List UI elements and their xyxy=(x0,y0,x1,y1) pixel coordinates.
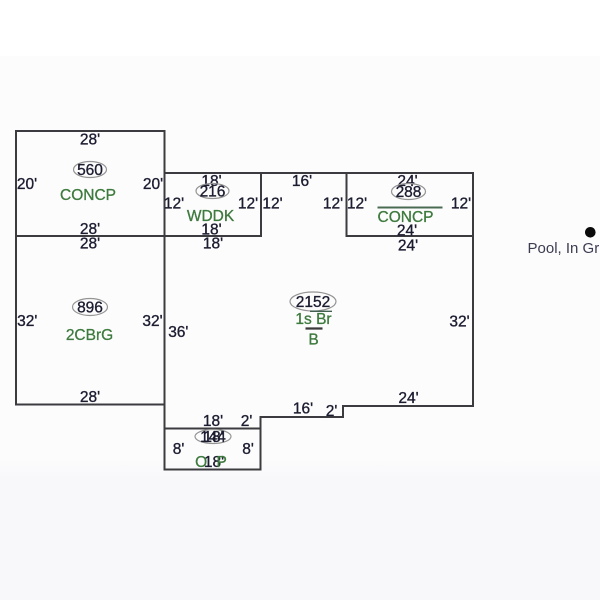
svg-text:20': 20' xyxy=(17,176,37,193)
wall WDDK east xyxy=(260,173,262,236)
svg-text:16': 16' xyxy=(292,173,312,190)
svg-text:144: 144 xyxy=(200,429,226,446)
svg-text:28': 28' xyxy=(80,236,100,253)
fraction bar xyxy=(306,327,323,329)
svg-text:8': 8' xyxy=(242,441,254,458)
main house 2152 labels xyxy=(168,173,469,430)
wall CONCP-right west xyxy=(346,173,348,236)
wall main bottom-left / OP top xyxy=(165,428,261,430)
svg-text:32': 32' xyxy=(142,313,162,330)
svg-text:28': 28' xyxy=(80,389,100,406)
room 2CBrG labels xyxy=(17,236,163,407)
svg-text:2152: 2152 xyxy=(296,294,330,311)
svg-text:1s Br: 1s Br xyxy=(295,311,331,328)
svg-text:36': 36' xyxy=(168,324,188,341)
wall step 2ft right xyxy=(342,406,344,417)
svg-text:2': 2' xyxy=(241,413,253,430)
porch OP labels xyxy=(173,429,254,471)
room CONCP-right labels xyxy=(347,173,471,240)
svg-text:12': 12' xyxy=(451,196,471,213)
svg-text:18': 18' xyxy=(203,236,223,253)
porch rail line under 288 xyxy=(378,207,443,209)
wall main bottom-middle xyxy=(261,416,343,418)
svg-text:32': 32' xyxy=(17,313,37,330)
wall right of left boxes / main house west wall xyxy=(164,131,166,470)
svg-text:32': 32' xyxy=(449,314,469,331)
room WDDK labels xyxy=(164,173,258,239)
wall CONCP-left bottom / WDDK bottom xyxy=(16,235,261,237)
svg-text:288: 288 xyxy=(396,184,422,201)
svg-text:20': 20' xyxy=(143,176,163,193)
overline over Br xyxy=(310,310,332,312)
wall step / OP east xyxy=(260,417,262,470)
svg-text:Pool, In Grnd: Pool, In Grnd xyxy=(528,240,600,257)
svg-text:2': 2' xyxy=(326,403,338,420)
svg-text:P: P xyxy=(217,454,227,471)
wall top run WDDK / main / CONCP-right xyxy=(165,172,474,174)
wall CONCP-right bottom xyxy=(347,235,474,237)
svg-text:28': 28' xyxy=(80,132,100,149)
svg-text:560: 560 xyxy=(77,162,103,179)
svg-text:B: B xyxy=(308,332,318,349)
svg-text:16': 16' xyxy=(293,401,313,418)
svg-text:12': 12' xyxy=(238,196,258,213)
svg-text:8': 8' xyxy=(173,441,185,458)
wall left of CONCP-left and 2CBrG boxes xyxy=(15,131,17,405)
wall OP bottom xyxy=(165,469,261,471)
svg-text:12': 12' xyxy=(262,196,282,213)
svg-text:12': 12' xyxy=(347,196,367,213)
room CONCP-left labels xyxy=(17,132,163,239)
pool marker xyxy=(585,227,596,238)
svg-text:O: O xyxy=(195,454,207,471)
svg-text:216: 216 xyxy=(200,184,226,201)
svg-text:24': 24' xyxy=(398,238,418,255)
top white band xyxy=(0,0,600,56)
svg-text:12': 12' xyxy=(164,196,184,213)
svg-text:2CBrG: 2CBrG xyxy=(66,327,113,344)
svg-text:18': 18' xyxy=(203,413,223,430)
svg-text:896: 896 xyxy=(77,300,103,317)
svg-text:12': 12' xyxy=(323,196,343,213)
wall main bottom-right xyxy=(343,405,473,407)
wall 2CBrG bottom xyxy=(16,404,165,406)
svg-text:CONCP: CONCP xyxy=(60,187,116,204)
wall top of CONCP-left box xyxy=(16,130,165,132)
svg-text:24': 24' xyxy=(398,390,418,407)
wall east of main house xyxy=(472,173,474,406)
